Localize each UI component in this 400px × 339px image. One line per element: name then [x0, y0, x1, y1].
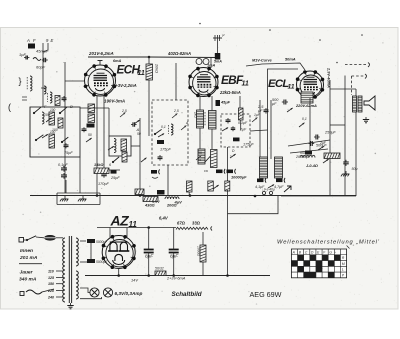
svg-text:A: A: [26, 38, 30, 43]
svg-text:(: (: [8, 102, 11, 112]
wire: [80, 107, 109, 109]
wire: [96, 96, 98, 196]
svg-text:2μF: 2μF: [239, 128, 247, 132]
coil box: [30, 107, 80, 157]
capacitor: [158, 156, 163, 158]
B- rail: [85, 275, 270, 277]
svg-text:4μV: 4μV: [174, 200, 183, 205]
wire: [202, 262, 204, 276]
speaker lead: [345, 64, 368, 66]
capacitor: [157, 190, 165, 195]
svg-text:0,1μF: 0,1μF: [238, 121, 248, 125]
svg-text:20kΩ: 20kΩ: [155, 63, 159, 73]
resistor: [122, 152, 127, 162]
tube ECH11: [85, 65, 116, 96]
pointer: [120, 113, 125, 118]
svg-text:M: M: [342, 262, 345, 266]
coil: [42, 112, 44, 124]
svg-text:Jauer: Jauer: [20, 270, 34, 276]
resistor 50/32: [155, 271, 166, 276]
ground: [345, 171, 347, 174]
wire: [270, 100, 272, 159]
svg-text:5000μF: 5000μF: [96, 240, 108, 244]
capacitor 41uF: [257, 179, 264, 183]
capacitor 500pF: [283, 100, 285, 105]
wire: [126, 228, 128, 239]
svg-text:10000μF: 10000μF: [231, 175, 247, 180]
svg-text:250μF: 250μF: [324, 131, 336, 135]
resistor 15k: [94, 168, 109, 174]
svg-text:ca: ca: [204, 169, 208, 173]
wire: [211, 96, 213, 111]
svg-text:2,5: 2,5: [121, 109, 127, 113]
svg-text:190V-3mA: 190V-3mA: [104, 99, 125, 104]
pointer: [172, 114, 177, 119]
svg-text:60pF: 60pF: [36, 65, 46, 70]
wire: [90, 243, 92, 259]
pointer: [46, 118, 52, 122]
svg-text:100: 100: [52, 128, 58, 132]
svg-text:AZ: AZ: [110, 213, 130, 229]
IF2 primary: [260, 157, 268, 178]
wire: [309, 98, 311, 152]
section box: [268, 69, 299, 178]
wire: [148, 80, 150, 136]
svg-text:100: 100: [50, 108, 56, 112]
svg-text:0,1: 0,1: [161, 125, 166, 129]
wire: [79, 157, 81, 193]
speaker lead: [352, 75, 366, 77]
pointer: [158, 134, 164, 138]
tube AZ11: [102, 236, 135, 269]
svg-text:220V-62mA: 220V-62mA: [295, 103, 317, 108]
svg-text:ECL: ECL: [268, 78, 289, 90]
mains switch: [19, 238, 24, 243]
wire: [65, 80, 85, 82]
pointer: [213, 185, 219, 189]
wire: [24, 239, 28, 241]
output transformer primary: [301, 92, 313, 103]
meter: [203, 59, 209, 65]
svg-text:0,1: 0,1: [302, 117, 307, 121]
wire: [167, 165, 169, 196]
svg-text:110: 110: [48, 270, 54, 274]
svg-text:4,7μF: 4,7μF: [274, 185, 284, 189]
svg-text:1μF: 1μF: [254, 113, 261, 117]
capacitor: [157, 140, 164, 144]
switch: [154, 133, 156, 135]
ground: [70, 303, 72, 306]
wire: [148, 57, 150, 64]
capacitor 60pF: [43, 58, 45, 63]
wire: [175, 63, 177, 100]
IF1 primary: [197, 110, 204, 128]
capacitor: [87, 124, 95, 128]
svg-text:402Ω-82mA: 402Ω-82mA: [167, 51, 191, 56]
svg-text:75pF: 75pF: [64, 151, 73, 155]
capacitor 47uF: [276, 179, 283, 183]
pointer: [268, 185, 274, 189]
resistor: [88, 114, 95, 123]
trimmer capacitor 45pF: [28, 44, 35, 49]
svg-text:15kΩ: 15kΩ: [94, 163, 103, 167]
wire: [139, 118, 141, 196]
wire: [118, 269, 120, 276]
capacitor 5000pF: [87, 239, 95, 243]
svg-text:E: E: [51, 38, 54, 43]
wire: [173, 228, 175, 250]
capacitor 45pF: [216, 100, 221, 106]
tick: [22, 96, 27, 98]
core: [68, 236, 70, 303]
svg-text:11: 11: [288, 84, 295, 91]
wire: [42, 75, 44, 107]
capacitor: [343, 161, 349, 163]
speaker: [364, 96, 375, 110]
svg-text:2,5: 2,5: [173, 109, 179, 113]
pointer: [141, 158, 147, 162]
wire: [80, 297, 102, 299]
svg-text:F: F: [33, 38, 36, 43]
capacitor 75pF: [64, 144, 69, 146]
junction: [189, 194, 192, 197]
field coil: [300, 155, 315, 157]
svg-text:340 mA: 340 mA: [19, 277, 37, 283]
pointer: [196, 156, 201, 161]
svg-text:175pF: 175pF: [160, 148, 171, 152]
wire: [104, 169, 120, 171]
svg-text:100: 100: [44, 113, 50, 117]
svg-text:L: L: [342, 268, 344, 272]
wire: [210, 58, 212, 69]
coil L3: [50, 92, 52, 103]
heater rail: [97, 227, 176, 229]
svg-text:J-0-4Ω: J-0-4Ω: [306, 164, 318, 168]
switch: [35, 139, 37, 141]
pointer: [230, 154, 236, 158]
wire: [64, 62, 66, 193]
svg-text:μ: μ: [222, 33, 225, 37]
capacitor 0,1uF: [226, 119, 231, 121]
svg-text:2,9V-40mA: 2,9V-40mA: [327, 67, 332, 88]
wire: [355, 89, 357, 196]
IF1 secondary: [209, 111, 217, 130]
pointer: [222, 128, 228, 132]
svg-text:150: 150: [48, 282, 54, 286]
capacitor 5000pF: [87, 259, 95, 263]
wire: [259, 100, 261, 159]
wire: [43, 43, 48, 52]
oscillator coil box: [109, 136, 131, 156]
wire: [227, 190, 229, 276]
primary taps: [56, 270, 63, 272]
wire: [227, 147, 229, 190]
svg-text:11: 11: [138, 70, 145, 77]
wire: [330, 124, 345, 126]
dial lamp: [103, 288, 112, 297]
resistor: [49, 112, 55, 125]
transformer primary: [63, 238, 65, 242]
resistor: [88, 104, 95, 113]
svg-text:D: D: [70, 104, 73, 109]
resistor: [208, 181, 214, 191]
capacitor 0,1uF: [61, 167, 67, 169]
svg-text:45mpF: 45mpF: [36, 49, 49, 54]
capacitor 175pF: [233, 138, 240, 142]
svg-text:50: 50: [88, 133, 92, 137]
capacitor 8uF: [169, 249, 179, 251]
capacitor: [62, 97, 67, 99]
wire: [29, 107, 31, 157]
ground: [82, 196, 84, 199]
pointer: [181, 126, 186, 131]
wire: [199, 128, 201, 149]
IF coil: [171, 124, 173, 135]
IF2 secondary: [275, 157, 283, 178]
switch: [112, 161, 114, 163]
ground: [64, 196, 66, 199]
svg-text:8μF: 8μF: [145, 254, 154, 260]
pointer: [318, 146, 324, 150]
resistor: [324, 153, 340, 159]
capacitor 10000pF: [216, 170, 223, 174]
wire: [80, 240, 86, 242]
resistor 430: [143, 197, 158, 202]
svg-text:round: round: [300, 151, 309, 155]
svg-text:6mA: 6mA: [113, 59, 121, 63]
wire: [228, 196, 279, 214]
potentiometer P: [211, 150, 218, 168]
wire: [227, 180, 229, 190]
wire: [42, 43, 44, 75]
pointer: [299, 123, 305, 127]
wire: [88, 56, 218, 59]
resistor: [239, 108, 244, 120]
transformer secondary: [76, 238, 78, 242]
resistor: [121, 139, 127, 151]
svg-text:6,3V/0,3Amp: 6,3V/0,3Amp: [115, 291, 143, 296]
svg-text:14V: 14V: [131, 278, 138, 283]
wire: [148, 253, 150, 276]
svg-text:220: 220: [47, 289, 54, 293]
wire: [330, 88, 356, 90]
wire: [103, 96, 105, 170]
svg-text:M1V-Curve: M1V-Curve: [252, 59, 272, 63]
svg-text:4,5V: 4,5V: [152, 200, 160, 204]
capacitor: [227, 170, 234, 174]
wire: [329, 80, 331, 196]
wire: [211, 129, 213, 149]
svg-text:}: }: [19, 76, 22, 86]
wire: [173, 253, 175, 276]
capacitor: [82, 128, 87, 130]
svg-text:201V-6,2mA: 201V-6,2mA: [88, 51, 114, 56]
svg-text:50mA: 50mA: [285, 57, 296, 62]
detector box: [221, 114, 250, 147]
svg-text:μF: μF: [271, 102, 277, 106]
wire: [281, 195, 356, 197]
pointer: [252, 118, 257, 123]
resistor: [225, 181, 230, 191]
resistor: [58, 118, 63, 128]
tube EBF11: [189, 68, 218, 97]
band filter box: [152, 100, 188, 165]
junction: [147, 274, 150, 277]
capacitor 0,1: [215, 53, 221, 60]
chassis box: [57, 192, 100, 194]
svg-text:Wellenschalterstellung „Mittel: Wellenschalterstellung „Mittel’: [277, 240, 380, 246]
speaker transformer: [353, 96, 357, 112]
coil trimmer: [33, 58, 41, 61]
resistor 20k: [146, 64, 153, 80]
wire: [246, 63, 305, 70]
capacitor 25pF: [111, 170, 117, 174]
svg-text:240: 240: [47, 296, 54, 300]
divider: [19, 263, 42, 265]
pointer: [42, 134, 48, 138]
wave switch table: [291, 249, 346, 278]
tone network: [305, 151, 312, 155]
junction: [148, 56, 151, 59]
capacitor: [132, 122, 134, 127]
IF1b winding: [198, 149, 205, 164]
wire: [109, 228, 111, 239]
grid cap: [99, 61, 101, 66]
svg-text:1pF: 1pF: [19, 52, 26, 57]
capacitor 8uF: [144, 249, 154, 251]
resistor: [187, 181, 193, 192]
junction: [147, 226, 150, 229]
switch D2: [59, 112, 61, 114]
padder capacitor: [101, 173, 107, 175]
wire: [131, 145, 140, 147]
svg-text:67Ω: 67Ω: [177, 221, 186, 226]
svg-text:Schaltbild: Schaltbild: [172, 291, 202, 298]
resistor: [200, 245, 206, 262]
wire: [351, 76, 353, 95]
svg-text:125: 125: [48, 276, 55, 280]
connector: [262, 191, 265, 194]
svg-text:175μF: 175μF: [243, 143, 254, 147]
svg-text:2+3V-6mA: 2+3V-6mA: [166, 276, 186, 281]
svg-text:G: G: [329, 251, 332, 255]
osc coil: [114, 139, 116, 153]
B+ rail: [30, 195, 356, 197]
svg-text:50: 50: [137, 132, 141, 136]
voltage selector switch: [20, 292, 24, 296]
svg-text:25pF: 25pF: [110, 176, 120, 180]
svg-text:2kΩ: 2kΩ: [194, 111, 198, 118]
svg-text:170pF: 170pF: [98, 182, 109, 186]
svg-text:Innen: Innen: [20, 248, 33, 254]
switch F: [33, 112, 35, 114]
svg-text:AEG 69W: AEG 69W: [250, 290, 282, 299]
wire: [240, 120, 242, 130]
wire: [250, 130, 268, 131]
wire: [80, 288, 90, 293]
pointer: [86, 138, 92, 142]
svg-text:22kΩ-5mA: 22kΩ-5mA: [219, 90, 241, 95]
svg-text:0,1μF: 0,1μF: [58, 163, 68, 167]
svg-text:5mA: 5mA: [214, 60, 222, 64]
dial lamp: [90, 288, 99, 297]
svg-text:201 mA: 201 mA: [19, 255, 38, 261]
ground: [365, 117, 367, 120]
wire: [217, 35, 219, 58]
svg-text:5000μF: 5000μF: [96, 260, 108, 264]
wire: [202, 232, 204, 245]
svg-text:33Ω: 33Ω: [192, 221, 201, 226]
wire: [80, 261, 87, 263]
svg-text:45μF: 45μF: [220, 100, 231, 105]
coil 200: [165, 197, 179, 199]
svg-text:50/32: 50/32: [155, 267, 164, 271]
svg-text:50μ: 50μ: [352, 167, 358, 171]
wire: [239, 96, 241, 114]
pointer: [287, 108, 293, 112]
pickup jack: [213, 37, 222, 39]
wire: [199, 96, 201, 110]
svg-text:8μF: 8μF: [170, 254, 179, 260]
coil L2: [44, 86, 46, 94]
svg-text:1000Ω: 1000Ω: [197, 246, 201, 257]
svg-text:2μF: 2μF: [319, 141, 327, 145]
svg-text:6: 6: [109, 163, 111, 167]
tube ECL11: [297, 71, 324, 98]
resistor: [135, 189, 144, 195]
meter 1mA: [196, 59, 202, 65]
pointer: [108, 146, 114, 150]
wire: [188, 192, 190, 196]
core: [204, 112, 206, 126]
arrow: [284, 186, 291, 192]
pointer: [134, 120, 140, 124]
capacitor: [151, 170, 157, 174]
svg-text:6,4V: 6,4V: [159, 216, 169, 221]
resistor: [49, 134, 55, 148]
wire: [344, 76, 346, 197]
antenna coil L1: [30, 76, 32, 91]
resistor: [55, 96, 60, 106]
svg-text:11: 11: [242, 81, 249, 88]
wire: [148, 228, 150, 250]
svg-text:50: 50: [198, 151, 202, 155]
pointer: [323, 159, 329, 163]
junction: [216, 56, 219, 59]
svg-text:2+3V-2,2mA: 2+3V-2,2mA: [112, 83, 137, 88]
wire: [108, 108, 110, 136]
wire: [65, 180, 67, 193]
switch: [61, 141, 63, 143]
